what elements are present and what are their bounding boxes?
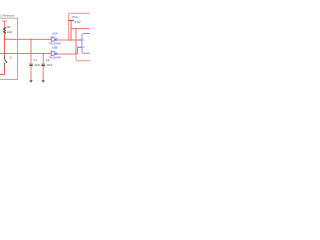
resistor R1 — [3, 27, 5, 34]
power bar VCC (left, above R1) — [2, 20, 7, 22]
ground arrow C2 — [41, 80, 45, 83]
gate U3A inverter symbol — [51, 37, 57, 42]
node junction R1 — [4, 39, 6, 41]
instrument box (blue) — [82, 34, 94, 54]
wire node row2 horizontal — [0, 53, 51, 55]
wire C1 vertical top — [30, 39, 32, 63]
wire R1 top lead — [4, 21, 6, 27]
wire vertical x76 — [75, 29, 77, 54]
wire C2 vertical top — [42, 54, 44, 63]
wire to pin2 — [77, 47, 79, 54]
svg-text:1kΩ: 1kΩ — [7, 30, 12, 34]
svg-text:VCC: VCC — [72, 15, 78, 19]
svg-text:74LS04N: 74LS04N — [48, 56, 61, 60]
node junction pin1 — [75, 39, 77, 41]
node junction row2-left — [4, 53, 6, 55]
switch S1 top lead — [4, 56, 6, 59]
switch S1 lever — [5, 59, 7, 62]
group box left (gray) — [0, 18, 18, 79]
svg-text:U3B: U3B — [52, 46, 58, 50]
pin 2 stub — [78, 46, 83, 48]
wire U3B output — [57, 53, 77, 55]
capacitor C1 — [29, 63, 32, 65]
node junction C1-row2 — [30, 53, 32, 55]
svg-text:1 Resistors: 1 Resistors — [0, 13, 15, 17]
wire R1 bottom lead — [4, 34, 6, 40]
svg-text:10nF: 10nF — [34, 63, 40, 67]
svg-text:1: 1 — [83, 39, 85, 42]
gate U3B inverter symbol — [51, 51, 57, 56]
svg-text:2: 2 — [83, 46, 85, 49]
comment box right (pink, VCC group) — [69, 13, 91, 61]
svg-text:10nF: 10nF — [47, 63, 53, 67]
power bar VCC (right) — [68, 19, 74, 21]
node junction VCC-row1 — [70, 39, 72, 41]
svg-text:S1: S1 — [9, 56, 13, 60]
node junction C2-row2 — [42, 53, 44, 55]
wire to pin1 — [76, 39, 79, 41]
wire VCC rail horizontal — [71, 28, 90, 30]
ground arrow C1 — [29, 80, 33, 83]
wire switch to left edge — [0, 66, 5, 74]
wire U3A output — [57, 39, 76, 41]
node junction rail — [75, 28, 76, 29]
svg-text:R1: R1 — [7, 25, 11, 29]
svg-text:5.0V: 5.0V — [75, 20, 81, 24]
capacitor C2 — [42, 63, 45, 65]
wire C1 bottom — [30, 66, 32, 80]
svg-text:C1: C1 — [33, 58, 37, 62]
switch S1 bottom lead — [4, 63, 6, 66]
svg-text:U3A: U3A — [52, 32, 58, 36]
wire node row1 horizontal — [5, 38, 52, 40]
wire VCC down — [70, 21, 72, 40]
wire left vertical to switch — [4, 39, 6, 56]
node junction C1-row1 — [30, 39, 32, 41]
switch S1 arrowhead — [6, 62, 8, 64]
pin 1 stub — [78, 39, 82, 41]
wire C2 bottom — [42, 66, 44, 80]
